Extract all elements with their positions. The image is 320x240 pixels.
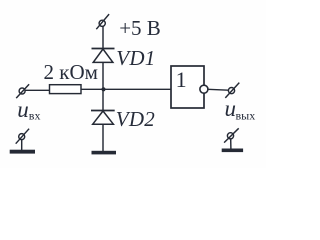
wire: input terminal to resistor R1 bbox=[25, 89, 49, 91]
wire: right common terminal to ground bbox=[230, 139, 232, 149]
svg-text:VD1: VD1 bbox=[116, 46, 155, 70]
wire: +5V terminal down to VD1 cathode bbox=[102, 26, 104, 48]
terminal +5V (circle with slash) bbox=[96, 14, 109, 29]
wire: VD2 anode to ground bbox=[102, 124, 104, 151]
inverter output bubble bbox=[200, 85, 208, 93]
logic gate DD1 (IEC "1" inverter box) bbox=[171, 66, 204, 108]
svg-text:u: u bbox=[17, 97, 29, 122]
svg-text:2 кОм: 2 кОм bbox=[44, 60, 98, 84]
svg-text:1: 1 bbox=[176, 67, 187, 92]
resistor R1 (2 kOhm) bbox=[50, 85, 82, 94]
terminal u_out (circle with slash) bbox=[225, 83, 239, 98]
ground (left) bbox=[10, 150, 35, 154]
wire: VD1 anode down through node to VD2 cathode bbox=[102, 62, 104, 110]
svg-text:вых: вых bbox=[236, 109, 256, 123]
terminal common (left, circle with slash) bbox=[16, 129, 29, 144]
svg-text:u: u bbox=[225, 96, 237, 121]
ground (right) bbox=[222, 149, 243, 153]
svg-text:+5 В: +5 В bbox=[119, 16, 161, 40]
ground (under VD2) bbox=[92, 151, 117, 155]
terminal common (right, circle with slash) bbox=[224, 128, 239, 142]
diode VD1 bbox=[92, 49, 115, 63]
wire: left common terminal to ground bbox=[21, 140, 23, 151]
terminal u_in (circle with slash) bbox=[16, 84, 29, 98]
diode VD2 bbox=[91, 111, 115, 125]
svg-text:VD2: VD2 bbox=[116, 107, 155, 131]
wire: resistor to gate input (through node A) bbox=[81, 88, 171, 90]
node A (junction dot) bbox=[101, 87, 105, 91]
wire: gate output to u_out terminal bbox=[208, 88, 229, 91]
svg-text:вх: вх bbox=[29, 109, 41, 123]
